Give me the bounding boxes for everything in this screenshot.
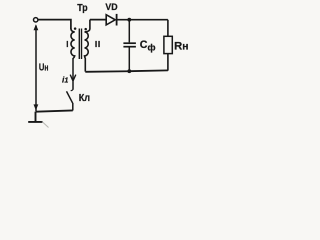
current arrow i1 head [70, 75, 76, 81]
transformer core [79, 29, 81, 60]
svg-text:Uн: Uн [39, 63, 49, 74]
arrowhead up [34, 24, 39, 30]
node junction top [127, 18, 131, 22]
diode VD [106, 14, 116, 26]
resistor Rn [164, 36, 172, 53]
scan artifact mark [42, 122, 49, 128]
wire bottom primary [36, 110, 73, 111]
transformer primary winding I [71, 29, 75, 59]
voltage arrow Un line [35, 26, 37, 112]
svg-text:Rн: Rн [174, 41, 188, 53]
node junction bottom [127, 69, 131, 73]
wire secondary top [90, 19, 106, 21]
switch Kl lower stub [72, 103, 74, 111]
transformer secondary winding II [85, 20, 90, 72]
polarity dot primary [74, 27, 77, 30]
wire top-left [38, 20, 71, 30]
svg-text:i1: i1 [62, 74, 68, 84]
wire diode to corner [117, 19, 167, 21]
svg-text:II: II [95, 39, 101, 49]
capacitor Cf [123, 20, 135, 71]
current arrow i1 wire [72, 58, 74, 90]
svg-text:VD: VD [105, 2, 117, 12]
wire secondary bottom [85, 70, 168, 71]
arrowhead down [34, 104, 39, 110]
switch Kl blade [67, 91, 73, 103]
wire right branch [167, 20, 169, 71]
svg-text:Тр: Тр [77, 3, 87, 14]
input bottom terminal bar [28, 112, 43, 122]
switch Kl tick [71, 90, 73, 91]
input terminal circle [34, 18, 38, 22]
svg-text:I: I [66, 40, 68, 49]
polarity dot secondary [84, 28, 87, 31]
svg-text:Кл: Кл [79, 93, 90, 104]
